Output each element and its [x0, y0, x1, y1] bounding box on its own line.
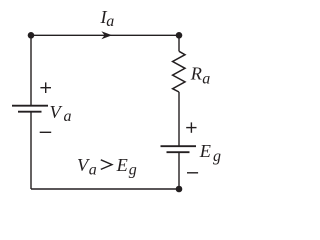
svg-text:a: a [106, 13, 114, 30]
svg-text:R: R [190, 63, 202, 83]
svg-text:a: a [64, 108, 72, 125]
svg-text:E: E [116, 155, 128, 175]
svg-text:g: g [213, 148, 221, 165]
svg-text:E: E [199, 141, 211, 161]
svg-text:a: a [89, 162, 97, 179]
svg-text:a: a [202, 70, 210, 87]
svg-text:g: g [129, 162, 137, 179]
svg-text:V: V [50, 102, 63, 122]
